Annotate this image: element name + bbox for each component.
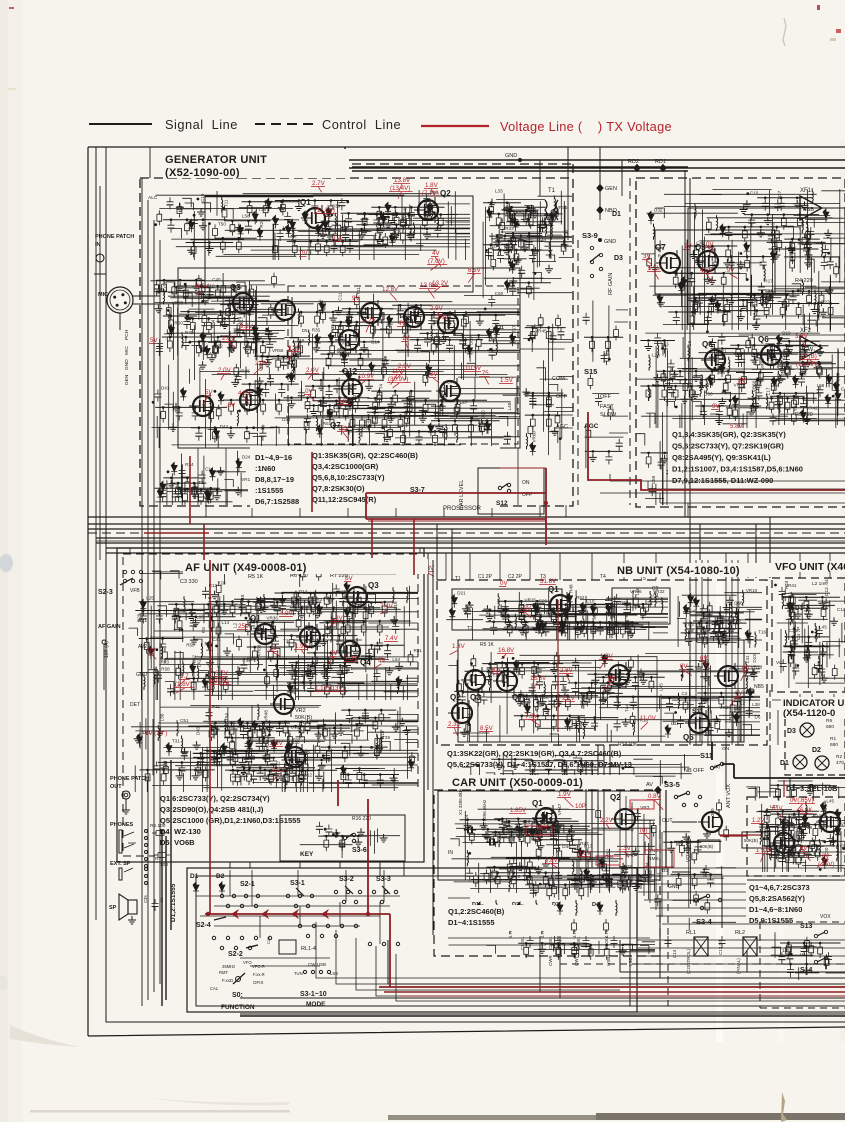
svg-text:C43: C43: [841, 387, 845, 392]
resistor R49: [641, 604, 646, 619]
resistor R58: [216, 405, 221, 420]
wire row: [135, 610, 205, 612]
ground sym: [227, 344, 235, 352]
capacitor C13: [362, 711, 373, 719]
resistor R41: [582, 622, 587, 637]
resistor R16: [353, 603, 358, 618]
ground sym: [712, 715, 720, 723]
resistor R10: [800, 362, 805, 377]
svg-text:Q1: Q1: [548, 585, 559, 594]
ground sym: [516, 698, 524, 706]
resistor R25: [318, 300, 323, 315]
resistor R43: [245, 400, 250, 415]
wire row: [571, 717, 619, 719]
resistor R41: [230, 221, 235, 236]
ground sym: [689, 251, 697, 259]
resistor R6: [191, 243, 196, 258]
wire top bus 2: [568, 147, 622, 220]
inductor L9: [583, 616, 584, 632]
capacitor C26: [716, 407, 727, 415]
wire row: [332, 325, 373, 327]
resistor R50: [330, 342, 335, 357]
resistor R59: [502, 671, 507, 686]
inductor L1: [234, 308, 235, 324]
ground sym: [591, 676, 599, 684]
af key box: [280, 815, 405, 861]
ground sym: [406, 231, 414, 239]
resistor R60: [377, 388, 382, 403]
wire stub: [174, 652, 183, 659]
resistor R22: [519, 601, 524, 616]
svg-text:6.5V: 6.5V: [196, 283, 210, 290]
resistor R7: [166, 304, 171, 319]
capacitor C25: [480, 693, 491, 701]
wire row: [321, 746, 388, 748]
diode D13: [389, 233, 395, 242]
ground sym: [305, 622, 313, 630]
capacitor C26: [320, 399, 331, 407]
svg-text:CAL: CAL: [210, 986, 219, 991]
resistor R4: [761, 293, 766, 308]
ground sym: [234, 487, 242, 495]
crystal filter XF2: [800, 336, 822, 360]
ground sym: [644, 343, 652, 351]
wire row: [163, 477, 197, 479]
wire row: [319, 622, 366, 624]
wire row: [482, 610, 569, 612]
wire stub: [149, 670, 158, 682]
ground sym: [692, 373, 700, 381]
svg-text:R20: R20: [161, 660, 170, 665]
wire mid bus: [88, 517, 845, 553]
wire stub: [805, 259, 814, 273]
resistor R41: [283, 771, 288, 786]
ground sym: [505, 619, 513, 627]
diode D16: [200, 332, 206, 341]
ground sym: [261, 604, 269, 612]
resistor R56: [372, 412, 377, 427]
inductor L8: [746, 678, 747, 694]
diode D19: [257, 228, 263, 237]
resistor R50: [261, 400, 266, 415]
wire row: [155, 487, 220, 489]
capacitor C36: [614, 698, 625, 706]
resistor R34: [742, 373, 747, 388]
wire row: [224, 737, 275, 739]
resistor R58: [608, 405, 613, 420]
capacitor C28: [301, 668, 312, 676]
wire stub: [216, 573, 225, 585]
diode D3: [530, 443, 536, 452]
inductor L3: [177, 720, 178, 736]
inductor L5: [161, 644, 162, 660]
svg-text:C40: C40: [212, 277, 221, 282]
wire row: [225, 299, 270, 301]
wire row: [505, 282, 551, 284]
wire stub: [339, 430, 348, 442]
capacitor C16: [484, 422, 495, 430]
diode D10: [426, 364, 432, 373]
wire stub: [336, 591, 345, 599]
ground sym: [704, 275, 712, 283]
ground sym: [653, 374, 661, 382]
wire row: [781, 340, 820, 342]
diode D12: [732, 395, 738, 404]
capacitor C3: [518, 612, 529, 620]
ground sym: [208, 354, 216, 362]
ground sym: [197, 208, 205, 216]
svg-text:D23: D23: [752, 654, 757, 663]
capacitor C23: [738, 380, 749, 388]
ground sym: [533, 603, 541, 611]
svg-text:PHONES: PHONES: [110, 822, 134, 828]
inductor L1: [754, 304, 755, 320]
diode D14: [252, 721, 258, 730]
wire row: [356, 224, 408, 226]
capacitor C35: [446, 341, 457, 349]
diode D7: [286, 741, 292, 750]
resistor R47: [644, 600, 649, 615]
svg-text:R50: R50: [186, 642, 195, 647]
svg-text:1.9V: 1.9V: [558, 791, 572, 798]
wire stub: [367, 594, 376, 604]
resistor R16: [408, 651, 413, 666]
resistor R6: [154, 281, 159, 296]
svg-text:IN: IN: [95, 242, 101, 248]
wire row: [287, 240, 359, 242]
wire row: [220, 304, 258, 306]
svg-text:S3-1: S3-1: [290, 880, 305, 887]
svg-text:L11: L11: [497, 325, 505, 330]
capacitor C4: [423, 194, 434, 202]
capacitor C49: [257, 769, 268, 777]
resistor R53: [383, 233, 388, 248]
wire mesh: [636, 350, 673, 505]
rf unit box: [636, 178, 845, 507]
inductor L5: [299, 309, 300, 325]
svg-text:1.2V: 1.2V: [752, 818, 764, 824]
capacitor C59: [338, 670, 349, 678]
wire row: [525, 327, 566, 329]
wire row: [431, 420, 500, 422]
wire row: [604, 622, 639, 624]
resistor R27: [546, 415, 551, 430]
resistor R16: [612, 603, 617, 618]
wire row: [668, 272, 741, 274]
top edge marks: [9, 7, 14, 9]
resistor R57: [199, 490, 204, 505]
capacitor C25: [289, 232, 300, 240]
ground sym: [211, 591, 219, 599]
svg-text:1.8V: 1.8V: [425, 182, 439, 189]
capacitor C32: [314, 639, 325, 647]
wire mesh: [139, 583, 418, 700]
inductor L5: [437, 214, 438, 230]
resistor R15: [324, 241, 329, 256]
wire row: [767, 241, 826, 243]
inductor L2: [762, 290, 763, 306]
capacitor C8: [259, 357, 270, 365]
resistor R11: [587, 688, 592, 703]
ground sym: [804, 359, 812, 367]
capacitor C53: [408, 230, 419, 238]
svg-text:C7: C7: [490, 866, 496, 871]
ground sym: [375, 745, 383, 753]
resistor R54: [528, 422, 533, 437]
svg-text:D12: D12: [304, 773, 313, 778]
svg-text:RMT: RMT: [219, 970, 229, 975]
resistor R24: [358, 354, 363, 369]
resistor R55: [519, 690, 524, 705]
svg-text:3V: 3V: [738, 377, 746, 384]
ground sym: [278, 595, 286, 603]
svg-text:C21: C21: [298, 608, 303, 617]
svg-text:L2 1m: L2 1m: [812, 581, 825, 587]
ground sym: [155, 285, 163, 293]
resistor R55: [394, 213, 399, 228]
ground sym: [312, 344, 320, 352]
capacitor C54: [801, 347, 812, 355]
capacitor C30: [459, 336, 470, 344]
resistor R59: [781, 215, 786, 230]
capacitor C23: [434, 226, 445, 234]
capacitor C30: [176, 408, 187, 416]
svg-text:2.9V: 2.9V: [398, 363, 412, 370]
diode D1: [747, 688, 753, 697]
resistor R21: [356, 593, 361, 608]
ground sym: [723, 604, 731, 612]
svg-text:D14: D14: [299, 589, 308, 594]
svg-text:25MHz: 25MHz: [222, 964, 235, 969]
wire stub: [740, 697, 749, 705]
resistor R15: [816, 362, 821, 377]
wire row: [744, 214, 819, 216]
resistor R8: [752, 345, 757, 360]
svg-text:4V: 4V: [398, 320, 406, 327]
inductor L8: [288, 727, 289, 743]
node GND2: [598, 238, 602, 242]
svg-text:D4: WZ-130: D4: WZ-130: [160, 827, 201, 836]
capacitor C43: [377, 776, 388, 784]
svg-text:RL1: RL1: [686, 930, 696, 936]
svg-text:S3-3: S3-3: [376, 876, 391, 883]
ground sym: [391, 209, 399, 217]
resistor R7: [231, 286, 236, 301]
svg-text:D19: D19: [782, 331, 791, 336]
resistor R56: [169, 316, 174, 331]
diode D10: [688, 594, 694, 603]
capacitor C49: [558, 623, 569, 631]
capacitor C31: [700, 630, 711, 638]
ground sym: [376, 227, 384, 235]
resistor R31: [256, 599, 261, 614]
capacitor C53: [325, 222, 336, 230]
inductor L9: [158, 725, 159, 741]
inductor L5: [764, 266, 765, 282]
capacitor C49: [327, 202, 338, 210]
wire row: [253, 601, 321, 603]
capacitor C2: [400, 218, 411, 226]
svg-text:VR47: VR47: [557, 803, 562, 815]
ground sym: [257, 597, 265, 605]
resistor R45: [784, 362, 789, 377]
wire stub: [236, 282, 245, 294]
capacitor C33: [735, 355, 746, 363]
resistor R3: [338, 322, 343, 337]
wire row: [321, 220, 367, 222]
capacitor C31: [217, 746, 228, 754]
svg-text:T31: T31: [200, 753, 205, 761]
wire mid bus verticals: [437, 170, 770, 580]
svg-text:VR24: VR24: [317, 731, 322, 743]
svg-text:VR10: VR10: [746, 588, 758, 593]
wire row: [225, 769, 294, 771]
resistor R24: [343, 747, 348, 762]
diode D7: [290, 219, 296, 228]
svg-text:2.3V: 2.3V: [448, 721, 462, 728]
svg-text:R22: R22: [821, 300, 830, 305]
svg-text:0.8V: 0.8V: [648, 793, 662, 800]
wire stub: [765, 344, 774, 352]
capacitor C39: [583, 313, 594, 321]
resistor R43: [796, 304, 801, 319]
wire mesh: [453, 652, 760, 742]
ground sym: [240, 767, 248, 775]
svg-text:Q3:2SD90(O),Q4:2SB 481(I,J): Q3:2SD90(O),Q4:2SB 481(I,J): [160, 805, 264, 814]
svg-text:D1: D1: [190, 873, 199, 880]
resistor R20: [312, 593, 317, 608]
wire row: [313, 379, 384, 381]
svg-text:Q6: Q6: [683, 733, 694, 742]
resistor R30: [721, 273, 726, 288]
wire mid to af nb drops: [129, 548, 131, 553]
resistor R21: [333, 230, 338, 245]
ground sym: [167, 480, 175, 488]
resistor R50: [590, 337, 595, 352]
wire stub: [177, 291, 186, 305]
wire stub: [325, 420, 334, 430]
svg-text:D1,2:1S1007, D3,4:1S1587,D5,6:: D1,2:1S1007, D3,4:1S1587,D5,6:1N60: [672, 465, 803, 474]
svg-text:1V: 1V: [402, 335, 410, 342]
mic connector: [107, 287, 133, 313]
svg-text:4.6V: 4.6V: [238, 390, 252, 397]
ground sym: [754, 381, 762, 389]
wire stub: [331, 677, 340, 691]
transistor Q3: [229, 290, 253, 316]
wire row: [609, 696, 644, 698]
ground sym: [784, 348, 792, 356]
resistor R20: [817, 364, 822, 379]
wire row: [268, 635, 358, 637]
capacitor C35: [758, 283, 769, 291]
inductor L2: [182, 332, 183, 348]
inductor L9: [335, 213, 336, 229]
wire row: [357, 213, 392, 215]
capacitor C58: [300, 771, 311, 779]
wire stub: [830, 257, 839, 268]
capacitor C52: [591, 719, 602, 727]
ground sym: [235, 224, 243, 232]
inductor L1: [755, 632, 756, 648]
wire row: [367, 406, 422, 408]
svg-text:OUT: OUT: [110, 784, 122, 790]
wire stub: [737, 274, 746, 281]
resistor R28: [555, 412, 560, 427]
resistor R49: [241, 393, 246, 408]
ground sym: [708, 339, 716, 347]
resistor R26: [730, 701, 735, 716]
resistor R5: [379, 710, 384, 725]
svg-text:T16: T16: [758, 630, 766, 635]
capacitor C35: [152, 899, 163, 907]
bottom left shadow smudge: [10, 1025, 80, 1047]
diode D14: [347, 398, 353, 407]
capacitor C31: [515, 664, 526, 672]
capacitor C31: [542, 624, 553, 632]
resistor R4: [324, 836, 329, 851]
wire row: [640, 340, 675, 342]
capacitor C20: [805, 240, 816, 248]
svg-text:RD1: RD1: [655, 159, 666, 165]
svg-text:R35: R35: [330, 324, 335, 333]
inductor L6: [285, 776, 286, 792]
resistor R40: [802, 234, 807, 249]
svg-text:16.8V: 16.8V: [530, 675, 547, 682]
resistor R60: [661, 370, 666, 385]
ground sym: [547, 215, 555, 223]
wire row: [497, 235, 542, 237]
ground sym: [493, 238, 501, 246]
resistor R35: [790, 257, 795, 272]
svg-text:(X52-1090-00): (X52-1090-00): [165, 167, 240, 179]
diode D18: [236, 459, 242, 468]
capacitor C12: [382, 356, 393, 364]
capacitor C56: [767, 346, 778, 354]
resistor R19: [191, 678, 196, 693]
ground sym: [722, 637, 730, 645]
diode D4: [560, 621, 566, 630]
svg-text:1.3V: 1.3V: [618, 845, 632, 852]
wire row: [498, 608, 568, 610]
inductor L5: [551, 224, 552, 240]
resistor R9: [261, 342, 266, 357]
capacitor C45: [190, 619, 201, 627]
diode D17: [745, 630, 751, 639]
svg-text:Q3: Q3: [230, 283, 241, 292]
diode D10: [326, 207, 332, 216]
resistor R34: [401, 431, 406, 446]
capacitor C59: [552, 677, 563, 685]
inductor L5: [377, 734, 378, 750]
resistor R34: [726, 371, 731, 386]
wire row: [780, 363, 836, 365]
svg-text:D28: D28: [512, 874, 521, 879]
inductor L7: [511, 237, 512, 253]
capacitor C25: [654, 334, 665, 342]
svg-text:S3-1~10: S3-1~10: [300, 991, 327, 998]
diode D14: [408, 759, 414, 768]
nb unit title: [612, 563, 772, 577]
ground sym: [328, 623, 336, 631]
wire stub: [271, 648, 280, 658]
resistor R9: [346, 342, 351, 357]
resistor R56: [230, 602, 235, 617]
wire row: [482, 663, 563, 665]
ground sym: [319, 230, 327, 238]
switch S12: [498, 483, 510, 492]
capacitor C23: [821, 258, 832, 266]
transistor Q11: [436, 378, 460, 404]
